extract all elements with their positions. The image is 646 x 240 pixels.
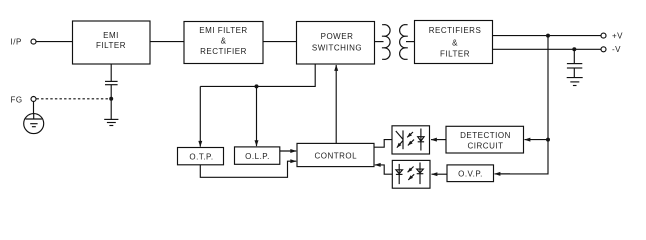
- svg-text:O.V.P.: O.V.P.: [458, 169, 483, 178]
- svg-text:&: &: [452, 39, 458, 48]
- input terminal I/P: [11, 37, 37, 46]
- svg-text:RECTIFIER: RECTIFIER: [200, 47, 247, 56]
- earth ground symbol at FG: [24, 114, 44, 134]
- ground symbol below capacitor: [104, 119, 118, 125]
- svg-text:DETECTION: DETECTION: [460, 131, 511, 140]
- capacitor on -V rail: [567, 49, 582, 77]
- wire O.V.P. to photocoupler PC2 (arrow): [432, 173, 448, 175]
- transformer T1 primary winding: [384, 25, 390, 60]
- wire POWER SWITCHING down to OTP/OLP bus: [200, 64, 315, 86]
- svg-text:FG: FG: [11, 95, 23, 104]
- node junction on -V line: [572, 47, 576, 51]
- wire -V output line: [493, 48, 602, 50]
- wire feedback rail from +V junction down: [499, 36, 549, 174]
- wire photocoupler PC2 to CONTROL (arrow): [375, 165, 393, 174]
- photocoupler PC2 LED: [417, 163, 424, 185]
- photocoupler PC2 photodiode: [396, 164, 403, 184]
- node junction on feedback rail: [546, 138, 550, 142]
- wire +V output line: [493, 35, 602, 37]
- output terminal +V: [601, 31, 623, 40]
- wire bus down to O.L.P. (arrow): [256, 86, 258, 146]
- wire bus down to O.T.P. (arrow): [199, 86, 201, 146]
- svg-text:I/P: I/P: [11, 37, 22, 46]
- output terminal -V: [601, 45, 621, 54]
- wire O.T.P. loop to CONTROL (arrow): [200, 161, 296, 177]
- transformer T1 secondary winding: [400, 25, 406, 60]
- wire transformer secondary to RECTIFIERS & FILTER: [406, 41, 415, 43]
- svg-text:SWITCHING: SWITCHING: [312, 44, 362, 53]
- svg-text:O.T.P.: O.T.P.: [189, 152, 213, 161]
- wire POWER SWITCHING to transformer primary: [375, 41, 384, 43]
- wire CONTROL to photocoupler PC1: [374, 140, 392, 148]
- block DETECTION CIRCUIT: [446, 126, 524, 153]
- block POWER SWITCHING: [297, 22, 375, 65]
- svg-text:O.L.P.: O.L.P.: [245, 152, 270, 161]
- photocoupler PC1 LED: [418, 129, 424, 151]
- capacitor below EMI FILTER: [105, 64, 118, 119]
- ground symbol below -V capacitor: [567, 78, 583, 86]
- wire EMI FILTER to EMI FILTER & RECTIFIER: [150, 41, 184, 43]
- node junction on capacitor leg: [109, 97, 113, 101]
- block O.V.P.: [447, 165, 494, 182]
- wire CONTROL up to POWER SWITCHING (arrow): [335, 65, 337, 143]
- block O.T.P.: [178, 148, 224, 165]
- photocoupler PC1 box: [392, 126, 430, 154]
- photocoupler PC2 box: [392, 160, 430, 188]
- svg-text:&: &: [221, 37, 227, 46]
- block EMI FILTER: [73, 21, 151, 64]
- photocoupler PC2 light arrows: [408, 167, 415, 180]
- wire DETECTION CIRCUIT to photocoupler PC1 (arrow): [431, 139, 446, 141]
- wire FG dashed to junction: [37, 98, 111, 100]
- wire O.L.P. to CONTROL (arrow): [280, 150, 296, 152]
- svg-text:CIRCUIT: CIRCUIT: [468, 142, 504, 151]
- photocoupler PC1 phototransistor: [396, 130, 403, 149]
- svg-text:EMI: EMI: [103, 31, 119, 40]
- wire EMI FILTER & RECTIFIER to POWER SWITCHING: [263, 41, 297, 43]
- block O.L.P.: [235, 147, 280, 164]
- block RECTIFIERS & FILTER: [415, 21, 493, 64]
- wire rail to DETECTION CIRCUIT (arrow): [525, 139, 549, 141]
- svg-text:CONTROL: CONTROL: [314, 152, 357, 161]
- block CONTROL: [297, 143, 374, 166]
- wire I/P to EMI FILTER: [36, 41, 73, 43]
- input terminal FG: [11, 95, 37, 104]
- svg-text:-V: -V: [612, 45, 621, 54]
- svg-text:EMI FILTER: EMI FILTER: [199, 26, 247, 35]
- wire rail to O.V.P. (arrow): [495, 173, 511, 175]
- photocoupler PC1 light arrows: [407, 132, 414, 145]
- svg-text:FILTER: FILTER: [440, 50, 470, 59]
- svg-text:FILTER: FILTER: [96, 41, 126, 50]
- svg-text:+V: +V: [612, 31, 623, 40]
- node junction on bus: [255, 84, 259, 88]
- svg-text:RECTIFIERS: RECTIFIERS: [429, 26, 482, 35]
- svg-text:POWER: POWER: [321, 32, 354, 41]
- node junction on +V line: [546, 34, 550, 38]
- block EMI FILTER & RECTIFIER: [184, 22, 263, 64]
- wire FG to earth symbol: [33, 102, 35, 114]
